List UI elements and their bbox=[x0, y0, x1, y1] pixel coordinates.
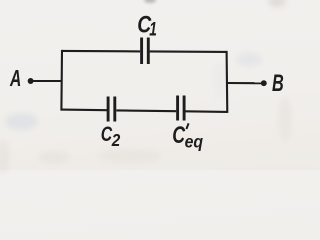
svg-text:2: 2 bbox=[111, 130, 121, 150]
svg-text:C: C bbox=[101, 123, 113, 147]
svg-text:1: 1 bbox=[149, 18, 157, 40]
svg-text:A: A bbox=[9, 66, 21, 92]
svg-text:C: C bbox=[172, 123, 185, 149]
svg-text:B: B bbox=[272, 70, 284, 97]
svg-text:eq: eq bbox=[185, 131, 204, 151]
